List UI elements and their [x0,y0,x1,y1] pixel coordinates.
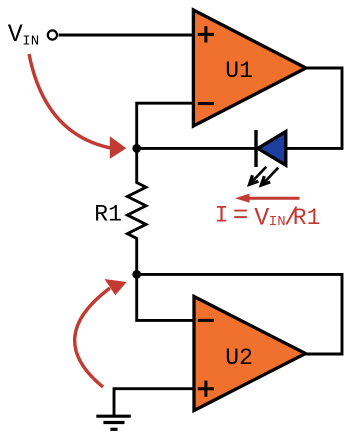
op-amp U1 [193,10,306,126]
annotation arrow from Vin to node A [29,54,126,159]
resistor R1 [127,148,146,274]
pin - (U2) [198,319,214,322]
wire node A to LED cathode [137,147,256,150]
svg-text:V: V [254,203,269,232]
wire Vin to U1 + input [59,34,193,37]
node B [132,270,141,279]
LED light arrow 2 [261,168,278,185]
wire node B to U2 output (right loop) [137,274,342,354]
wire node A up to U1 - input [137,103,193,148]
label I = Vin/R1 [215,200,321,232]
svg-text:I: I [215,202,229,228]
wire U1 output to LED (right loop) [287,68,342,148]
svg-text:V: V [8,20,23,49]
pin + (U1) [198,26,214,42]
node Vin label [8,20,39,49]
svg-text:R1: R1 [94,201,122,227]
svg-text:U2: U2 [225,345,253,371]
svg-text:R1: R1 [293,205,321,231]
op-amp U2 [194,297,306,411]
svg-text:IN: IN [22,34,39,50]
pin + (U2) [198,381,214,397]
svg-text:=: = [233,200,249,230]
pin - (U1) [198,102,214,105]
node A [132,144,141,153]
wire node B down to U2 - input [137,274,194,320]
ground [96,416,131,429]
current direction arrow [235,194,300,203]
wire U2 + input to ground [114,389,194,417]
svg-text:U1: U1 [225,58,253,84]
annotation arrow from ground to node B [75,279,127,387]
LED D1 [256,130,286,167]
terminal Vin [48,30,57,39]
LED light arrow 1 [250,167,267,185]
